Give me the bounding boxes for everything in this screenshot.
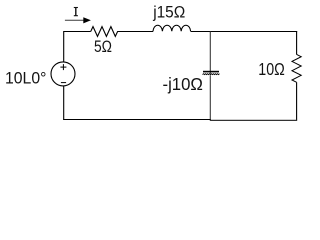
wire inductor to top-right corner [191,31,298,33]
resistor R1 5ohm horizontal zigzag [91,27,124,37]
svg-text:10Ω: 10Ω [258,59,285,79]
wire right branch lower [296,82,298,120]
resistor R2 10ohm vertical zigzag [292,54,301,82]
current arrow I [65,17,91,23]
wire capacitor branch lower [209,75,211,121]
voltage source minus sign [61,82,66,84]
voltage source plus sign [60,64,66,70]
svg-text:10L0°: 10L0° [5,70,46,88]
voltage source V1 circle [51,62,75,86]
svg-text:j15Ω: j15Ω [152,3,185,21]
wire bottom left segment [63,119,211,121]
svg-text:-j10Ω: -j10Ω [163,74,203,94]
wire right branch upper corner to resistor [296,31,298,55]
wire between resistor and inductor [124,31,153,33]
svg-text:5Ω: 5Ω [94,38,112,56]
wire capacitor branch upper [209,32,211,74]
capacitor C1 top plate [203,71,219,73]
wire top-left segment from source to resistor [64,32,91,63]
wire bottom right segment [210,119,297,121]
inductor L1 j15ohm with 4 humps [153,25,191,31]
capacitor C1 bottom plate wavy [203,73,220,76]
wire left branch lower [63,86,65,120]
current label I [74,8,78,16]
